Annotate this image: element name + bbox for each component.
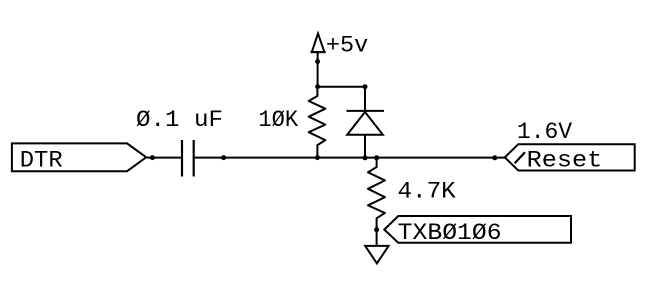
node junction dot right of capacitor	[221, 155, 226, 160]
node junction dot at DTR tip	[150, 155, 155, 160]
node dot top-left corner	[315, 84, 320, 89]
capacitor C1 0.1 uF	[182, 140, 194, 177]
wire +5v stem	[317, 53, 319, 87]
svg-text:TXBØ1Ø6: TXBØ1Ø6	[398, 220, 502, 247]
flag TXB0106	[384, 216, 571, 243]
wire capacitor to /Reset tip	[195, 157, 505, 159]
wire top branch to diode	[318, 86, 365, 88]
svg-text:+5v: +5v	[326, 32, 368, 59]
power +5v symbol	[311, 34, 326, 53]
svg-text:DTR: DTR	[20, 147, 63, 174]
flag DTR	[12, 143, 146, 171]
svg-text:1ØK: 1ØK	[258, 107, 299, 134]
flag /Reset	[505, 144, 635, 170]
wire ground stem	[376, 230, 378, 246]
resistor R1 10K	[309, 87, 326, 158]
node dot on +5v stem	[315, 59, 320, 64]
ground	[365, 246, 388, 264]
svg-text:1.6V: 1.6V	[517, 119, 572, 146]
svg-text:4.7K: 4.7K	[398, 178, 457, 205]
svg-text:Reset: Reset	[527, 147, 603, 174]
node dot before /Reset	[492, 155, 497, 160]
resistor R2 4.7K	[368, 158, 385, 230]
node dot diode bottom	[363, 155, 368, 160]
wire DTR tip to capacitor	[147, 157, 182, 159]
diode D1	[347, 87, 385, 158]
node dot 10K bottom	[315, 155, 320, 160]
node dot top of diode	[363, 84, 368, 89]
label /Reset slash	[515, 152, 525, 163]
node dot above ground	[374, 227, 379, 232]
svg-text:Ø.1 uF: Ø.1 uF	[136, 107, 223, 134]
node dot 4.7K top	[374, 155, 379, 160]
